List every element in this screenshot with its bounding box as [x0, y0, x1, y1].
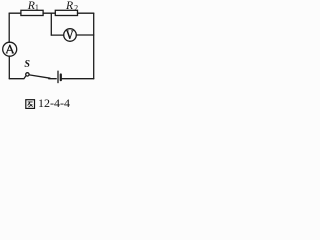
- wire right rail: [93, 13, 95, 79]
- switch S contact circle: [26, 73, 29, 76]
- svg-text:2: 2: [74, 3, 78, 12]
- ammeter A: [3, 42, 17, 56]
- battery positive plate (long thin): [57, 71, 59, 82]
- svg-text:12-4-4: 12-4-4: [38, 96, 70, 110]
- voltmeter V: [64, 29, 77, 42]
- wire R2 to top-right corner: [78, 12, 94, 14]
- wire left rail lower: [8, 56, 10, 78]
- resistor R2: [55, 10, 77, 15]
- node junction between R1 and R2, wire down to voltmeter branch: [50, 13, 52, 35]
- wire bottom-left to switch: [9, 76, 26, 79]
- svg-text:R: R: [65, 0, 73, 12]
- switch S blade: [29, 75, 50, 78]
- wire R1 to R2: [43, 12, 55, 14]
- battery negative plate (short thick): [60, 75, 62, 81]
- letter A of ammeter: [6, 45, 14, 53]
- resistor R1: [21, 10, 43, 15]
- wire battery to bottom-right corner: [62, 78, 94, 80]
- wire voltmeter branch left: [51, 34, 63, 36]
- letter V of voltmeter: [67, 31, 74, 39]
- svg-text:R: R: [27, 0, 35, 12]
- wire top-left corner to R1: [9, 12, 21, 14]
- wire voltmeter branch right: [76, 34, 93, 36]
- svg-text:1: 1: [35, 3, 39, 12]
- wire left rail upper: [8, 13, 10, 42]
- svg-text:S: S: [24, 59, 30, 70]
- wire switch to battery: [49, 78, 56, 80]
- caption character tu (figure): [26, 100, 35, 109]
